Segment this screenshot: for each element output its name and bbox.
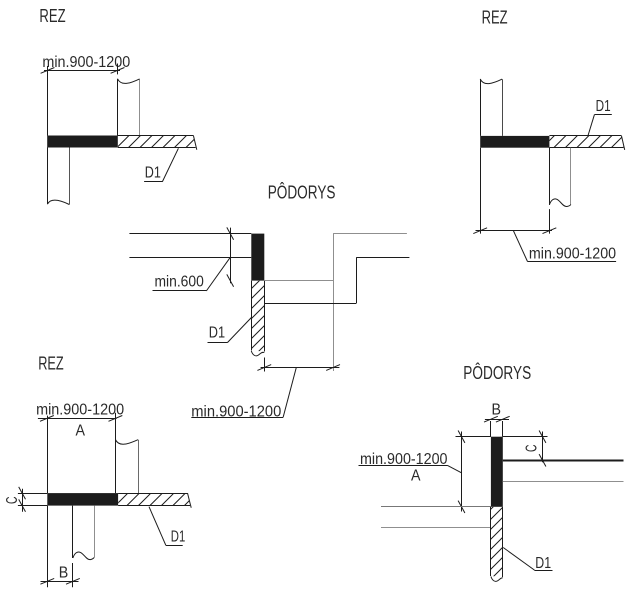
svg-text:C: C [524, 444, 541, 452]
svg-text:PÔDORYS: PÔDORYS [268, 181, 336, 202]
dimension C (bottom-left, board thickness) [4, 487, 47, 512]
svg-text:D1: D1 [145, 164, 161, 181]
dimension B (bottom-left) [40, 506, 79, 588]
label D1 with leader (centre) [208, 318, 252, 343]
dimension min.900-1200 (centre, bottom) [191, 358, 340, 421]
svg-text:min.600: min.600 [155, 273, 204, 290]
label D1 with leader (top-left) [144, 148, 178, 182]
left wall in plan (bottom-right) [381, 507, 491, 528]
title PODORYS (centre plan view) [268, 181, 336, 202]
svg-text:REZ: REZ [38, 354, 64, 374]
title PODORYS (bottom-right plan view) [463, 362, 531, 383]
solid board (black) bottom-right plan [491, 437, 503, 507]
svg-text:REZ: REZ [482, 8, 508, 28]
svg-text:min.900-1200: min.900-1200 [36, 402, 124, 419]
dimension min.600 (centre) [153, 227, 234, 291]
svg-text:REZ: REZ [39, 6, 65, 26]
dimension C (bottom-right) [503, 431, 548, 467]
left wall in plan (centre) [129, 234, 251, 258]
door opening jamb lines (centre plan) [264, 234, 407, 372]
dimension min.900-1200 with A (bottom-left) [36, 402, 124, 493]
title REZ (bottom-left section view) [38, 354, 64, 374]
dimension min.900-1200 (top-right, below) [473, 148, 616, 263]
wall below board (top-right), broken [549, 148, 571, 207]
label D1 with leader (bottom-right) [503, 548, 552, 573]
hatched board D1 (centre plan) [251, 281, 264, 356]
svg-text:D1: D1 [171, 528, 186, 545]
svg-text:min.900-1200: min.900-1200 [529, 246, 616, 263]
label D1 with leader (bottom-left) [149, 507, 185, 546]
dimension min.900-1200 (top-left) [41, 54, 131, 135]
hatched board D1 (top-left) [118, 134, 200, 152]
dimension min.900-1200 with A (bottom-right) [359, 431, 491, 514]
wall above board (top-left), broken [118, 79, 140, 136]
right wall in plan (centre) [264, 257, 409, 303]
hatched board D1 (bottom-left) [118, 491, 194, 510]
label D1 with leader (top-right) [588, 98, 612, 136]
wall below board (top-left), broken [47, 148, 69, 205]
wall above board (bottom-left), broken [115, 440, 138, 494]
solid board (black) top-left [47, 136, 118, 148]
solid board (black) bottom-left [47, 493, 118, 506]
wall above board (top-right), broken [480, 79, 502, 136]
svg-text:C: C [4, 497, 21, 505]
title REZ (top-left section view) [39, 6, 65, 26]
dimension B (bottom-right, board width) [484, 401, 510, 436]
hatched board D1 (bottom-right plan) [491, 507, 503, 582]
hatched board D1 (top-right) [549, 134, 627, 152]
svg-text:D1: D1 [535, 555, 551, 572]
right wall in plan (bottom-right) [503, 461, 624, 482]
solid board (black) centre plan [251, 234, 264, 281]
title REZ (top-right section view) [482, 8, 508, 28]
solid board (black) top-right [480, 136, 549, 148]
svg-text:A: A [75, 422, 85, 439]
svg-text:B: B [492, 401, 502, 418]
svg-text:PÔDORYS: PÔDORYS [463, 362, 531, 383]
svg-text:A: A [411, 467, 421, 484]
svg-text:D1: D1 [209, 325, 225, 342]
svg-text:D1: D1 [596, 98, 611, 115]
wall below board (bottom-left), broken [73, 506, 95, 560]
svg-text:B: B [59, 564, 69, 581]
